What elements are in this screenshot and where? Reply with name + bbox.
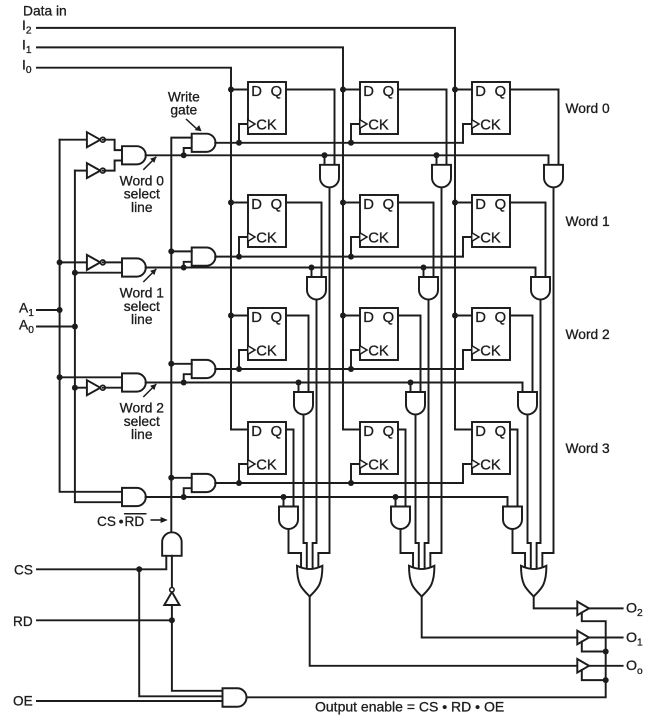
wire read gate word 1 bit 2 output to OR gate [537,299,541,573]
label Word 0 select line with arrow [120,157,165,215]
label Word 2 select line with arrow [120,384,164,442]
svg-text:Q: Q [383,310,395,326]
wire read gate word 0 bit 1 output to OR gate [430,186,441,572]
AND gate CS.RDbar write enable [162,532,182,556]
svg-text:CK: CK [368,344,389,360]
inverter A1 for word 1 [87,255,105,270]
svg-text:CK: CK [480,344,501,360]
D flip-flop word 0 bit 1 [360,82,398,134]
svg-text:•: • [119,514,124,529]
svg-text:CK: CK [256,344,277,360]
AND gate row 1 write gate [192,248,216,266]
svg-text:RD: RD [125,514,145,529]
svg-text:D: D [475,84,486,100]
wire row 1 clock line from write gate to CK inputs [215,237,472,260]
label CS.RDbar with arrow [97,514,168,529]
svg-text:D: D [363,84,374,100]
wire row 3 clock line from write gate to CK inputs [215,464,472,486]
svg-text:line: line [131,427,153,442]
svg-text:D: D [251,197,262,213]
svg-text:Word 2: Word 2 [566,327,610,342]
wire OR gate bit 2 output to tri-state buffer [534,596,578,608]
wire O2 output line [589,607,623,609]
inverter A0 for word 2 [87,380,105,395]
label output O1 [626,630,643,649]
svg-text:Q: Q [383,424,395,440]
OR gate output bit 1 [409,566,434,597]
AND gate read word 2 bit 0 [294,392,313,415]
wire word 0 select line net [146,148,549,165]
wire Q output word 3 bit 2 to read gate [510,430,518,508]
svg-text:CK: CK [480,458,501,474]
label OE [13,693,33,708]
svg-text:D: D [475,310,486,326]
wire OR gate bit 0 output to tri-state buffer [310,596,578,665]
D flip-flop word 2 bit 1 [360,308,398,360]
svg-text:Q: Q [383,84,395,100]
AND gate word 0 select [122,146,146,164]
wire word 3 select line net [146,488,508,507]
svg-text:Word 0: Word 0 [566,101,611,116]
label output Oo [626,658,643,677]
AND gate row 2 write gate [192,360,216,378]
AND gate read word 1 bit 0 [307,277,326,300]
wire CS net [37,556,223,697]
AND gate read word 0 bit 0 [320,165,339,188]
AND gate read word 0 bit 1 [432,165,451,188]
label Write gate with arrow [168,89,202,131]
wire I0 data net feeding column 0 D inputs [37,68,248,430]
AND gate row 3 write gate [192,474,216,492]
wire Q output word 0 bit 2 to read gate [510,90,559,166]
D flip-flop word 3 bit 0 [248,422,286,474]
wire A1 input stub and bus [37,140,122,492]
wire word 1 select line net [146,262,536,278]
OR gate output bit 2 [521,566,546,597]
wire output-enable net to buffer enables [247,613,609,698]
D flip-flop word 1 bit 2 [472,195,510,247]
svg-text:gate: gate [170,102,197,117]
wire word1 AND inputs [103,261,122,263]
svg-text:D: D [363,310,374,326]
wire Q output word 0 bit 0 to read gate [286,90,335,166]
svg-text:line: line [131,200,153,215]
svg-text:line: line [131,312,153,327]
svg-text:D: D [251,424,262,440]
label CS [14,562,33,577]
wire O1 output line [589,637,623,639]
svg-text:Data in: Data in [23,4,67,19]
svg-text:Q: Q [495,424,507,440]
svg-text:CK: CK [480,231,501,247]
inverter RD for write enable [164,556,179,605]
svg-text:Output enable = CS • RD • OE: Output enable = CS • RD • OE [315,699,504,715]
label RD [13,614,33,629]
AND gate row 0 write gate [192,134,216,152]
wire read gate word 0 bit 0 output to OR gate [318,186,329,572]
D flip-flop word 3 bit 2 [472,422,510,474]
svg-text:D: D [251,84,262,100]
AND gate read word 1 bit 1 [419,277,438,300]
AND gate read word 2 bit 2 [518,392,537,415]
svg-text:CS: CS [14,562,33,577]
tri-state buffer Oo [577,659,589,673]
D flip-flop word 2 bit 2 [472,308,510,360]
wire Q output word 2 bit 1 to read gate [398,316,421,393]
wire Q output word 1 bit 0 to read gate [286,203,322,278]
wire Q output word 0 bit 1 to read gate [398,90,447,166]
AND gate word 3 select [122,488,146,506]
svg-text:CK: CK [256,118,277,134]
wire CS.RDbar write-enable vertical net [168,138,191,533]
label Output enable = CS.RD.OE [315,699,504,715]
wire word2 AND inputs [103,387,122,389]
wire Q output word 3 bit 0 to read gate [286,430,294,508]
svg-text:RD: RD [13,614,33,629]
AND gate read word 1 bit 2 [531,277,550,300]
wire read gate word 3 bit 2 output to OR gate [513,528,526,572]
OR gate output bit 0 [297,566,322,597]
wire read gate word 3 bit 0 output to OR gate [289,528,302,572]
wire word 2 select line net [146,374,523,392]
svg-text:CK: CK [256,458,277,474]
D flip-flop word 1 bit 1 [360,195,398,247]
svg-text:D: D [475,424,486,440]
svg-text:Word 1: Word 1 [566,214,610,229]
label input I1 [22,37,32,56]
svg-text:CK: CK [480,118,501,134]
wire RD net [37,605,223,691]
svg-text:Q: Q [271,84,283,100]
svg-text:Q: Q [495,197,507,213]
AND gate read word 3 bit 0 [279,507,298,530]
svg-text:Q: Q [271,424,283,440]
wire OE net [37,700,223,702]
AND gate read word 0 bit 2 [544,165,563,188]
label address A1 [19,301,34,320]
svg-text:D: D [363,197,374,213]
label address A0 [19,317,34,336]
D flip-flop word 1 bit 0 [248,195,286,247]
wire I1 data net feeding column 1 D inputs [37,47,360,429]
label Word 1 select line with arrow [120,269,164,327]
label Word 3 [566,441,611,456]
wire read gate word 2 bit 0 output to OR gate [304,414,307,573]
inverter A0 for word 0 [87,163,105,178]
svg-text:Q: Q [495,310,507,326]
svg-text:CK: CK [256,231,277,247]
svg-text:CK: CK [368,118,389,134]
svg-text:Word 3: Word 3 [566,441,611,456]
wire Q output word 3 bit 1 to read gate [398,430,406,508]
tri-state buffer O2 [577,602,589,616]
svg-text:Q: Q [495,84,507,100]
wire row 0 clock line from write gate to CK inputs [215,124,472,146]
svg-text:D: D [475,197,486,213]
label output O2 [626,601,643,620]
wire Oo output line [589,665,623,667]
AND gate read word 2 bit 1 [406,392,425,415]
label Data in [23,4,67,19]
svg-text:D: D [251,310,262,326]
D flip-flop word 0 bit 0 [248,82,286,134]
label Word 0 [566,101,611,116]
svg-text:CS: CS [97,514,116,529]
D flip-flop word 0 bit 2 [472,82,510,134]
AND gate output enable CS.RD.OE [223,688,247,707]
wire read gate word 1 bit 1 output to OR gate [425,299,429,573]
wire read gate word 2 bit 1 output to OR gate [416,414,419,573]
svg-text:Q: Q [383,197,395,213]
wire Q output word 2 bit 2 to read gate [510,316,533,393]
label Word 1 [566,214,610,229]
wire read gate word 2 bit 2 output to OR gate [528,414,531,573]
AND gate read word 3 bit 2 [503,507,522,530]
wire Q output word 1 bit 2 to read gate [510,203,546,278]
wire word0 AND inputs [103,140,122,171]
wire Q output word 2 bit 0 to read gate [286,316,309,393]
svg-text:OE: OE [13,693,33,708]
D flip-flop word 2 bit 0 [248,308,286,360]
AND gate word 2 select [122,373,146,391]
wire read gate word 1 bit 0 output to OR gate [313,299,317,573]
wire A0 input stub and bus [37,171,122,503]
svg-text:D: D [363,424,374,440]
tri-state buffer O1 [577,631,589,645]
svg-text:CK: CK [368,458,389,474]
label input I2 [22,18,32,37]
D flip-flop word 3 bit 1 [360,422,398,474]
wire read gate word 3 bit 1 output to OR gate [401,528,414,572]
AND gate read word 3 bit 1 [391,507,410,530]
wire row 2 clock line from write gate to CK inputs [215,350,472,372]
svg-text:Q: Q [271,197,283,213]
wire read gate word 0 bit 2 output to OR gate [542,186,553,572]
svg-text:CK: CK [368,231,389,247]
wire I2 data net feeding column 2 D inputs [37,28,472,430]
label input I0 [22,58,32,77]
svg-text:Q: Q [271,310,283,326]
label Word 2 [566,327,610,342]
wire OR gate bit 1 output to tri-state buffer [422,596,578,637]
inverter A1 for word 0 [87,132,105,147]
AND gate word 1 select [122,258,146,276]
wire Q output word 1 bit 1 to read gate [398,203,434,278]
